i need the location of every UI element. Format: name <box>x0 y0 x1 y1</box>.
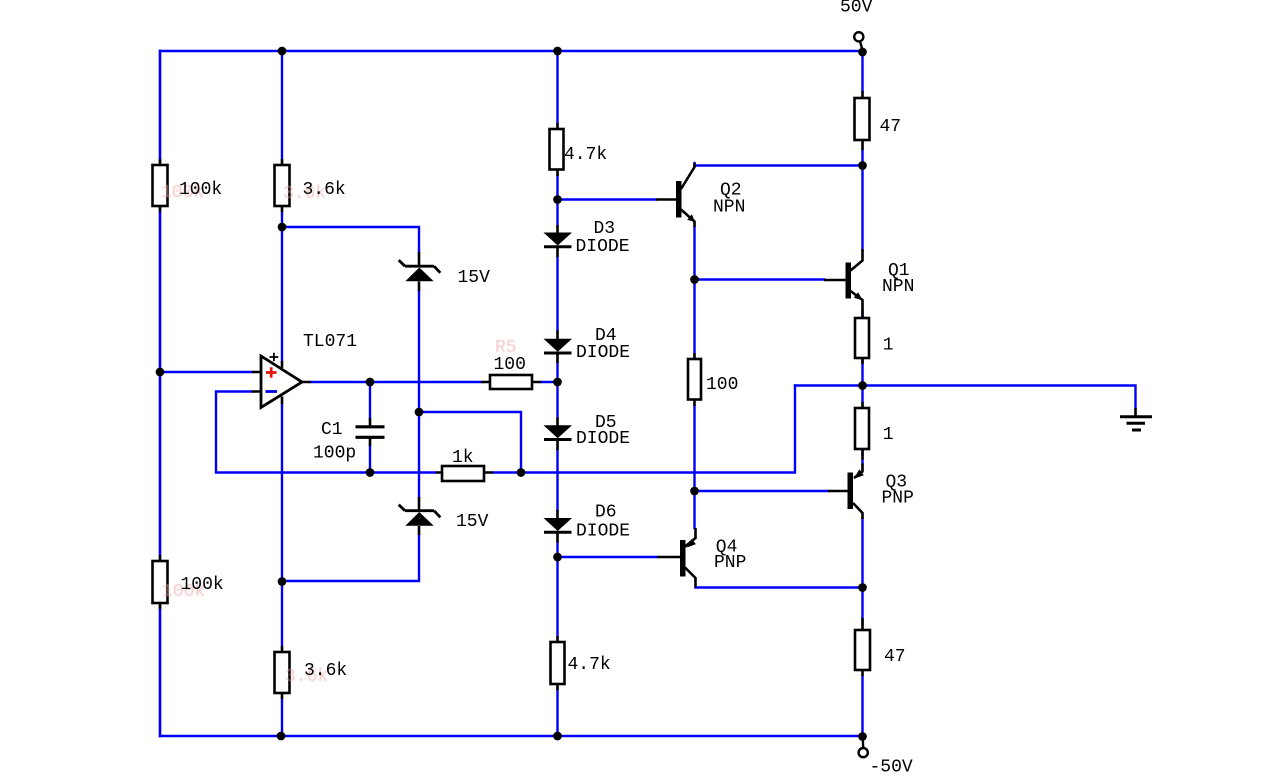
node Q3 base / column <box>690 487 699 496</box>
svg-text:100: 100 <box>494 355 526 375</box>
node 47 / Q2 collector <box>858 161 867 170</box>
wire D4 to D5 <box>556 363 558 418</box>
resistor R 1k feedback <box>436 466 493 481</box>
resistor R 1 upper <box>855 311 869 364</box>
svg-text:TL071: TL071 <box>303 332 357 352</box>
resistor R 3.6k lower <box>275 646 290 699</box>
svg-text:15V: 15V <box>458 268 491 288</box>
svg-text:15V: 15V <box>456 512 489 532</box>
svg-text:DIODE: DIODE <box>576 237 630 257</box>
svg-text:PNP: PNP <box>714 553 746 573</box>
svg-text:DIODE: DIODE <box>576 522 630 542</box>
node Q3 collector / Q4 collector <box>858 583 867 592</box>
node D6 / Q4 base <box>553 553 562 562</box>
node bottom rail / 4.7k <box>553 732 562 741</box>
wire zener bottom loop <box>282 535 419 581</box>
diode D5 <box>544 418 573 451</box>
node top rail / diode column <box>553 47 562 56</box>
wire right rail 50V to 47 <box>861 51 863 91</box>
wire Q3 collector node <box>861 519 863 624</box>
wire left rail <box>159 51 161 736</box>
wire op-amp plus input <box>160 371 252 373</box>
wire feedback rail right of 1k <box>493 386 795 473</box>
resistor R 4.7k lower <box>551 636 565 690</box>
terminal -50V <box>859 737 868 757</box>
resistor R 100k upper <box>153 159 168 212</box>
node left rail / +input <box>156 368 165 377</box>
resistor R 47 top <box>855 91 870 150</box>
wire R100b to Q3 base node <box>693 406 695 491</box>
resistor R 47 bottom <box>855 618 870 676</box>
diode D4 <box>544 331 573 364</box>
wire output node to R1b <box>861 449 863 455</box>
svg-text:NPN: NPN <box>713 198 745 218</box>
diode D3 <box>544 225 573 257</box>
wire Q2 collector to right rail <box>695 163 863 166</box>
transistor Q4 <box>657 528 696 588</box>
node Q2 emitter / Q1 base <box>690 275 699 284</box>
terminal 50V <box>854 32 863 50</box>
resistor R 100 bias <box>688 353 701 406</box>
wire 100k upper leads <box>159 51 161 372</box>
svg-text:PNP: PNP <box>882 489 914 509</box>
svg-text:47: 47 <box>884 647 906 667</box>
transistor Q1 <box>824 249 863 311</box>
node zener mid tap <box>415 408 424 417</box>
svg-text:100k: 100k <box>181 575 224 595</box>
svg-text:1: 1 <box>883 425 894 445</box>
wire D3 to D4 <box>556 257 558 331</box>
wire Q3 emitter blue gap <box>861 460 863 464</box>
wire 100k lower leads <box>159 372 161 736</box>
svg-text:-50V: -50V <box>870 758 913 778</box>
svg-text:50V: 50V <box>840 0 873 18</box>
zener diode 15V lower <box>399 497 441 535</box>
svg-text:47: 47 <box>880 117 902 137</box>
resistor R 100k lower <box>153 555 168 609</box>
node output R100 / diode column <box>553 378 562 387</box>
svg-text:D3: D3 <box>594 219 616 239</box>
wire 4.7k bottom to rail <box>556 690 558 736</box>
node top rail / 3.6k <box>278 47 287 56</box>
node 3.6k / zener top <box>278 223 287 232</box>
svg-text:100: 100 <box>706 375 738 395</box>
wire diode column top <box>556 51 558 123</box>
wire Q3 base <box>695 490 829 492</box>
node 4.7k / Q2 base <box>553 195 562 204</box>
node top rail / 50V <box>858 48 867 57</box>
wire mid column to R100b <box>693 280 695 354</box>
node C1 bottom <box>366 468 375 477</box>
op-amp inverting - (blue) <box>266 390 278 393</box>
node bottom rail / -50V <box>858 732 867 741</box>
svg-text:DIODE: DIODE <box>576 343 630 363</box>
op-amp V+ power marker <box>270 353 279 362</box>
svg-text:100p: 100p <box>313 444 356 464</box>
svg-text:1: 1 <box>883 336 894 356</box>
wire Q1 base <box>695 278 825 280</box>
node bottom rail / 3.6k <box>277 732 286 741</box>
wire Q2 emitter down <box>693 227 695 280</box>
resistor R 100 output <box>481 375 541 389</box>
wire bottom rail <box>160 735 863 737</box>
transistor Q2 <box>656 163 695 227</box>
wire Q4 collector to right rail <box>696 586 863 588</box>
wire op-amp output <box>311 381 481 383</box>
wire output node rail <box>795 386 1136 409</box>
wire zener top loop <box>282 227 419 252</box>
wire Q2 base <box>558 198 657 200</box>
svg-text:D6: D6 <box>595 503 617 523</box>
wire D6 to Q4 base node <box>556 542 558 636</box>
node output rail <box>858 381 867 390</box>
wire R 100 to diode column <box>541 381 558 383</box>
resistor R 4.7k upper <box>550 123 564 176</box>
wire R1a to output node <box>861 358 863 402</box>
svg-text:DIODE: DIODE <box>576 429 630 449</box>
node 1k right <box>517 468 526 477</box>
wire op-amp minus input feedback left <box>216 392 436 473</box>
wire zener mid segment <box>418 291 420 497</box>
resistor R 3.6k upper <box>275 159 290 212</box>
wire 3.6k column upper <box>281 51 283 361</box>
wire D5 to D6 <box>556 450 558 510</box>
svg-text:NPN: NPN <box>882 277 914 297</box>
wire 3.6k column lower <box>281 404 283 736</box>
svg-text:100k: 100k <box>179 180 222 200</box>
wire Q3 base node to Q4 emitter <box>693 491 695 528</box>
wire Q1 emitter to R1a <box>861 311 863 318</box>
svg-text:3.6k: 3.6k <box>304 661 347 681</box>
op-amp U1 TL071 <box>252 356 311 408</box>
node C1 top <box>366 378 375 387</box>
wire Q4 base <box>558 556 658 558</box>
node zener bottom / 3.6k <box>278 577 287 586</box>
wire 47b to bottom rail <box>861 676 863 736</box>
transistor Q3 <box>828 455 864 519</box>
op-amp non-inverting + (red) <box>266 367 277 377</box>
zener diode 15V upper <box>399 252 441 291</box>
svg-text:C1: C1 <box>321 420 343 440</box>
svg-text:3.6k: 3.6k <box>303 180 346 200</box>
wire top rail <box>160 50 863 52</box>
wire 47 to Q2 collector node <box>861 150 863 250</box>
resistor R 1 lower <box>855 402 869 455</box>
capacitor C1 <box>356 418 385 446</box>
svg-text:4.7k: 4.7k <box>564 145 607 165</box>
ground symbol <box>1120 408 1152 430</box>
wire C1 leads <box>369 382 371 473</box>
diode D6 <box>544 510 573 543</box>
svg-text:4.7k: 4.7k <box>568 655 611 675</box>
wire zener mid tap to 1k <box>419 412 521 473</box>
svg-text:1k: 1k <box>452 448 474 468</box>
wire 4.7k top to D3 <box>556 176 558 226</box>
